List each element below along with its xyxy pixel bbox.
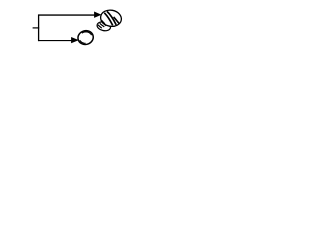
hatch stroke (short, lower-left rim): [101, 20, 104, 24]
hatch stroke 3: [107, 11, 116, 25]
wire: vertical branch bar: [38, 15, 40, 42]
rim shading stroke inside sphere top-right: [82, 32, 92, 35]
wire: bottom branch: [38, 40, 71, 42]
node: small rear hatched sphere (partly occluded by large sphere): [96, 21, 111, 32]
hatch stroke 4: [114, 17, 119, 24]
node: front sphere with rim shading: [76, 29, 94, 46]
arrowhead on top branch: [94, 12, 101, 18]
arrowhead on bottom branch: [71, 37, 79, 43]
node: large hatched sphere: [99, 9, 122, 28]
rim shading stroke inside sphere bottom-left: [80, 40, 86, 43]
hatch stroke 2: [104, 13, 112, 26]
wire: top branch: [38, 14, 94, 16]
wire: left input stub: [33, 27, 40, 29]
